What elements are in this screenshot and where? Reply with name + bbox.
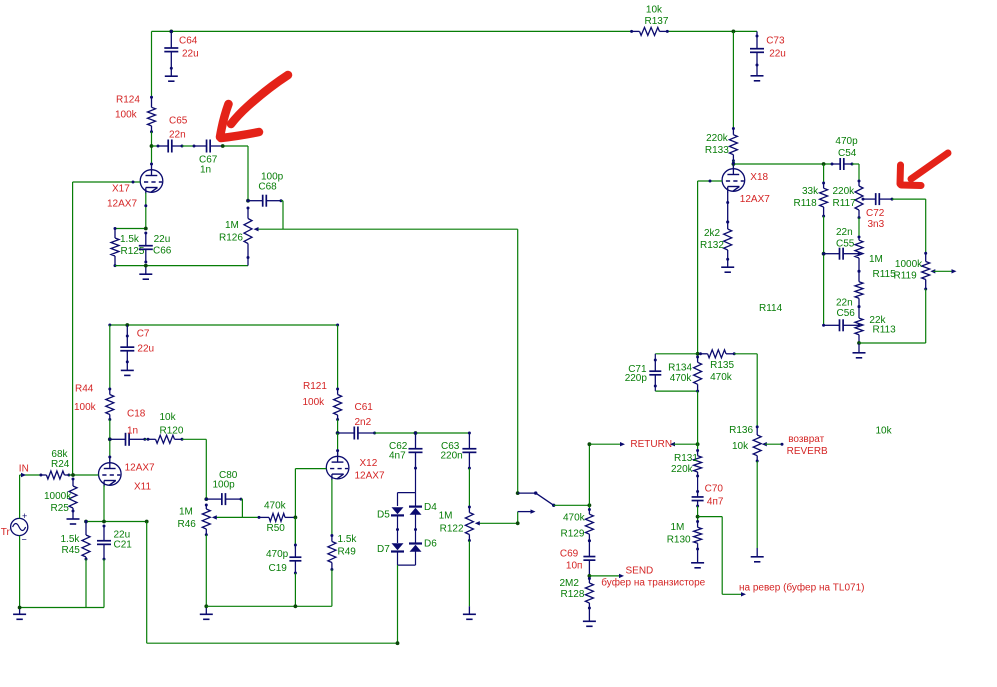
- svg-text:220k: 220k: [833, 186, 856, 197]
- svg-text:C7: C7: [137, 328, 150, 339]
- svg-text:22u: 22u: [769, 48, 786, 59]
- svg-text:C19: C19: [269, 563, 288, 574]
- svg-text:22u: 22u: [154, 234, 171, 245]
- svg-text:100p: 100p: [213, 479, 236, 490]
- svg-text:C56: C56: [837, 308, 856, 319]
- svg-text:12AX7: 12AX7: [355, 471, 385, 482]
- svg-text:220p: 220p: [625, 373, 648, 384]
- svg-text:X18: X18: [750, 172, 768, 183]
- svg-text:C18: C18: [127, 408, 146, 419]
- svg-text:22u: 22u: [137, 344, 154, 355]
- svg-text:470p: 470p: [266, 549, 289, 560]
- svg-text:R136: R136: [729, 425, 753, 436]
- svg-text:C21: C21: [114, 540, 133, 551]
- svg-text:10k: 10k: [646, 4, 663, 15]
- svg-text:R119: R119: [894, 271, 918, 282]
- svg-text:R130: R130: [667, 534, 691, 545]
- svg-text:C54: C54: [838, 148, 857, 159]
- svg-text:22n: 22n: [836, 298, 853, 309]
- svg-text:22n: 22n: [836, 227, 853, 238]
- svg-text:C66: C66: [153, 246, 172, 257]
- svg-text:D6: D6: [424, 539, 437, 550]
- svg-text:220n: 220n: [441, 451, 463, 462]
- svg-text:1.5k: 1.5k: [338, 534, 358, 545]
- svg-text:3n3: 3n3: [868, 219, 885, 230]
- svg-text:−: −: [22, 534, 27, 544]
- svg-text:R45: R45: [62, 545, 81, 556]
- svg-text:1n: 1n: [127, 425, 138, 436]
- svg-text:C73: C73: [766, 35, 785, 46]
- svg-text:12AX7: 12AX7: [740, 194, 770, 205]
- svg-text:100k: 100k: [115, 110, 138, 121]
- svg-text:470p: 470p: [835, 136, 858, 147]
- svg-text:R132: R132: [700, 240, 724, 251]
- svg-text:1M: 1M: [225, 220, 239, 231]
- svg-text:RETURN: RETURN: [630, 439, 672, 450]
- svg-text:C70: C70: [705, 483, 724, 494]
- svg-text:R137: R137: [645, 16, 669, 27]
- svg-text:R135: R135: [710, 360, 734, 371]
- svg-text:R114: R114: [759, 303, 783, 314]
- svg-text:10k: 10k: [732, 441, 749, 452]
- svg-text:100k: 100k: [74, 402, 97, 413]
- svg-text:12AX7: 12AX7: [125, 462, 155, 473]
- svg-text:R24: R24: [51, 459, 70, 470]
- svg-text:470k: 470k: [710, 372, 733, 383]
- svg-text:возврат: возврат: [788, 434, 824, 445]
- svg-text:470k: 470k: [670, 373, 693, 384]
- svg-text:R118: R118: [794, 198, 818, 209]
- svg-text:10п: 10п: [566, 561, 583, 572]
- svg-text:1.5k: 1.5k: [61, 534, 81, 545]
- svg-text:1M: 1M: [671, 522, 685, 533]
- svg-text:R50: R50: [267, 523, 286, 534]
- svg-text:R44: R44: [75, 384, 94, 395]
- svg-text:R134: R134: [668, 362, 692, 373]
- svg-text:C61: C61: [355, 402, 374, 413]
- svg-text:X17: X17: [112, 183, 130, 194]
- svg-text:SEND: SEND: [626, 566, 654, 577]
- svg-text:C68: C68: [258, 182, 277, 193]
- svg-text:R129: R129: [561, 529, 585, 540]
- svg-text:R113: R113: [873, 325, 897, 336]
- svg-text:D7: D7: [377, 544, 390, 555]
- svg-text:1000k: 1000k: [895, 259, 923, 270]
- svg-text:R121: R121: [303, 381, 327, 392]
- svg-text:R131: R131: [674, 453, 698, 464]
- svg-text:1000k: 1000k: [44, 491, 72, 502]
- svg-text:1n: 1n: [200, 164, 211, 175]
- svg-text:1M: 1M: [439, 511, 453, 522]
- svg-text:2k2: 2k2: [704, 228, 721, 239]
- svg-text:R49: R49: [338, 546, 357, 557]
- svg-text:1.5k: 1.5k: [120, 234, 140, 245]
- svg-text:4п7: 4п7: [707, 497, 724, 508]
- svg-text:буфер на транзисторе: буфер на транзисторе: [601, 576, 705, 588]
- svg-text:R124: R124: [116, 94, 140, 105]
- svg-text:33k: 33k: [802, 186, 819, 197]
- svg-text:R120: R120: [160, 425, 184, 436]
- svg-text:R25: R25: [51, 503, 70, 514]
- svg-text:C65: C65: [169, 115, 188, 126]
- svg-text:REVERB: REVERB: [787, 446, 828, 457]
- svg-text:X12: X12: [360, 458, 378, 469]
- svg-text:1M: 1M: [869, 254, 883, 265]
- svg-text:R46: R46: [178, 519, 197, 530]
- svg-text:4n7: 4n7: [389, 451, 406, 462]
- svg-text:1M: 1M: [179, 506, 193, 517]
- svg-text:R126: R126: [219, 232, 243, 243]
- svg-text:X11: X11: [134, 481, 151, 492]
- svg-text:2M2: 2M2: [560, 578, 580, 589]
- svg-text:22u: 22u: [182, 49, 199, 60]
- svg-text:470k: 470k: [563, 513, 586, 524]
- svg-text:12AX7: 12AX7: [107, 198, 137, 209]
- svg-text:Tr: Tr: [1, 527, 11, 538]
- svg-text:R128: R128: [561, 589, 585, 600]
- svg-text:R125: R125: [121, 246, 145, 257]
- svg-text:C69: C69: [560, 548, 579, 559]
- svg-text:IN: IN: [19, 463, 29, 474]
- svg-text:C72: C72: [866, 208, 885, 219]
- svg-text:100k: 100k: [303, 397, 326, 408]
- svg-text:R117: R117: [833, 198, 857, 209]
- svg-text:22n: 22n: [169, 129, 186, 140]
- svg-text:R133: R133: [705, 145, 729, 156]
- svg-text:D4: D4: [424, 502, 437, 513]
- svg-text:470k: 470k: [264, 501, 287, 512]
- svg-text:D5: D5: [377, 510, 390, 521]
- svg-text:на ревер (буфер на TL071): на ревер (буфер на TL071): [739, 582, 865, 594]
- svg-text:10k: 10k: [876, 426, 893, 437]
- svg-text:10k: 10k: [160, 412, 177, 423]
- svg-text:C64: C64: [179, 36, 198, 47]
- svg-text:+: +: [22, 511, 27, 521]
- svg-text:R122: R122: [440, 524, 464, 535]
- svg-text:220k: 220k: [671, 464, 694, 475]
- svg-text:220k: 220k: [706, 133, 729, 144]
- svg-text:C55: C55: [836, 239, 855, 250]
- svg-text:2n2: 2n2: [355, 417, 372, 428]
